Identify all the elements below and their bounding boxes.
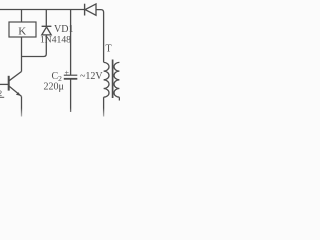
svg-text:~12V: ~12V (80, 71, 103, 82)
transformer T secondary winding (114, 62, 119, 97)
transformer secondary bottom lead (118, 97, 120, 100)
svg-text:+: + (65, 69, 70, 78)
transformer core (112, 60, 114, 99)
wire top rail left (0, 9, 84, 11)
svg-text:VD1: VD1 (54, 24, 73, 35)
transistor VT base wire (0, 83, 9, 85)
svg-text:K: K (18, 26, 26, 38)
capacitor C2 plates (64, 74, 78, 76)
wire drop to relay K (21, 10, 23, 23)
scan fade at bottom edge (0, 108, 120, 120)
capacitor C2 top lead (70, 10, 72, 76)
transformer T primary winding (104, 62, 109, 97)
svg-text:220μ: 220μ (44, 82, 64, 93)
wire emitter down (21, 96, 23, 116)
diode VD (rectifier, pointing left) (85, 4, 96, 16)
emitter arrowhead (16, 92, 21, 96)
relay coil K box (9, 22, 36, 37)
wire branch to VD1 anode (22, 35, 47, 57)
transistor VT collector diagonal (9, 72, 22, 81)
transformer primary bottom lead (103, 97, 105, 116)
diode VD1 top lead (45, 10, 47, 27)
capacitor C2 bottom lead (70, 80, 72, 113)
wire from K bottom down to transistor collector (21, 37, 23, 72)
transistor VT base bar (8, 76, 10, 91)
wire top rail right to corner, down to transformer (96, 10, 104, 63)
svg-text:1N4148: 1N4148 (40, 35, 71, 46)
svg-text:T: T (106, 44, 112, 55)
diode VD1 (flyback, cathode up) (42, 26, 52, 35)
transistor VT emitter diagonal (9, 86, 21, 96)
svg-text:2: 2 (0, 88, 2, 98)
